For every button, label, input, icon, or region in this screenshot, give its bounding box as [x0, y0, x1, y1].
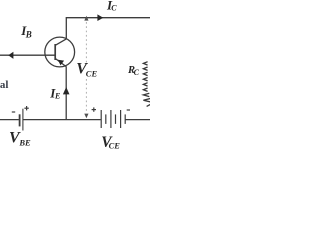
- label I_E: [49, 85, 60, 100]
- transistor collector diagonal: [56, 39, 67, 45]
- minus sign of V_BE: [12, 111, 15, 113]
- wire: base lead (horizontal, left): [0, 54, 55, 56]
- dashed line top arrow (up): [84, 16, 88, 21]
- arrow I_B (left-pointing on base wire): [8, 52, 13, 59]
- battery V_BE negative plate (short): [19, 114, 21, 126]
- label R_C: [127, 65, 140, 77]
- plus sign of V_CE: [92, 107, 96, 111]
- transistor emitter diagonal: [56, 59, 67, 67]
- transistor emitter arrow (points toward base, PNP): [58, 60, 64, 66]
- svg-text:CE: CE: [109, 141, 121, 150]
- battery V_CE plates (3 cells): [101, 110, 125, 128]
- svg-text:C: C: [111, 4, 117, 13]
- label I_C: [106, 0, 117, 13]
- minus sign of V_CE: [127, 109, 130, 111]
- wire: bottom rail left of V_BE: [0, 119, 19, 121]
- plus sign of V_BE: [24, 106, 28, 110]
- svg-text:nal: nal: [0, 79, 8, 91]
- svg-text:CE: CE: [86, 68, 98, 78]
- label V_CE (measurement): [76, 61, 97, 79]
- svg-text:BE: BE: [18, 137, 31, 147]
- svg-text:E: E: [54, 92, 60, 101]
- svg-text:C: C: [134, 68, 140, 77]
- wire: bottom rail between V_BE and V_CE: [23, 119, 101, 121]
- transistor Q1 (PNP) circle: [45, 37, 75, 67]
- transistor base bar: [54, 44, 56, 60]
- wire: emitter vertical: [65, 66, 67, 119]
- arrow I_C (right-pointing on top wire): [97, 14, 103, 21]
- label I_B: [20, 23, 32, 40]
- label V_BE: [9, 130, 31, 148]
- wire: bottom rail right of V_CE: [125, 119, 150, 121]
- label V_CE (battery): [101, 134, 120, 151]
- resistor R_C zigzag (right edge, partially cropped): [143, 62, 147, 65]
- wire: top collector rail: [66, 18, 150, 39]
- V_CE measurement dashed line (upper segment): [85, 22, 87, 63]
- V_CE measurement dashed line (lower segment): [85, 79, 87, 112]
- svg-text:B: B: [25, 30, 32, 40]
- arrow I_E (up-pointing on emitter wire): [63, 87, 70, 94]
- dashed line bottom arrow (down): [84, 114, 88, 119]
- battery V_BE positive plate (tall): [22, 109, 24, 131]
